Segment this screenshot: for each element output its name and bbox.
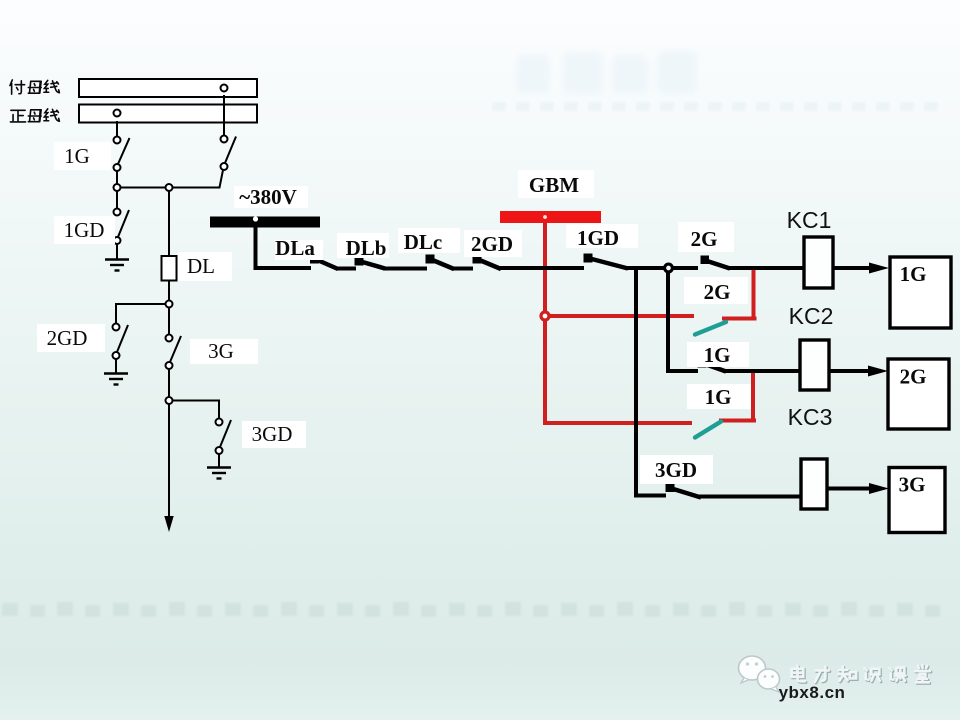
wire 3GD to ground — [218, 454, 220, 467]
svg-text:GBM: GBM — [529, 173, 579, 197]
label 2GD row — [464, 230, 522, 257]
ghost watermark top center — [516, 50, 697, 94]
wire bus2 to 1G — [116, 121, 118, 137]
wire — [626, 266, 664, 270]
node on main bus — [114, 110, 121, 117]
box 1G output — [890, 257, 951, 328]
label 2G row — [678, 222, 734, 252]
wire — [499, 266, 584, 270]
svg-text:DLc: DLc — [404, 230, 443, 254]
svg-text:1G: 1G — [900, 262, 927, 286]
svg-text:3GD: 3GD — [655, 458, 697, 482]
wechat icon — [739, 656, 780, 692]
ground 1GD — [105, 260, 129, 271]
wire 1GD to ground — [116, 244, 118, 259]
wire long drop to row C — [636, 268, 666, 496]
svg-text:2GD: 2GD — [47, 326, 88, 350]
svg-text:1G: 1G — [64, 144, 90, 168]
label DL — [178, 252, 232, 281]
svg-text:1GD: 1GD — [577, 226, 619, 250]
label GBM — [518, 170, 594, 198]
svg-text:2G: 2G — [691, 227, 718, 251]
svg-text:2G: 2G — [704, 280, 731, 304]
node red ring — [541, 312, 549, 320]
earthing switch 3GD — [216, 419, 223, 426]
svg-text:1G: 1G — [704, 343, 731, 367]
wire bus1 to 2G — [223, 95, 225, 136]
label 1G rowB — [687, 342, 749, 367]
ground 2GD — [104, 374, 128, 385]
svg-text:KC2: KC2 — [789, 303, 834, 329]
svg-text:1G: 1G — [705, 385, 732, 409]
knife switch 3GD (KC3 row) — [666, 483, 675, 492]
svg-text:ybx8.cn: ybx8.cn — [779, 683, 846, 702]
svg-text:KC1: KC1 — [787, 207, 832, 233]
label 3GD rowC — [640, 455, 713, 484]
disconnector 3G — [166, 335, 173, 342]
wire GBM down — [543, 223, 547, 311]
wire DL down — [168, 281, 170, 301]
wire — [336, 267, 356, 271]
arrow to 3G — [869, 483, 889, 494]
label 2G red — [684, 277, 748, 304]
text 正母线 — [10, 110, 25, 122]
earthing switch 2GD — [113, 324, 120, 331]
faint text row right half — [492, 102, 938, 111]
knife switch 1GD — [584, 254, 593, 263]
wire to KC2 — [724, 369, 800, 373]
node on GBM bus — [543, 215, 547, 219]
wire — [383, 267, 427, 271]
open contact blades (teal) — [695, 322, 726, 438]
wire red down to row2 — [545, 321, 692, 423]
earthing switch 1GD — [114, 209, 121, 216]
node on auxiliary bus — [221, 85, 228, 92]
svg-text:DLa: DLa — [275, 236, 315, 260]
knife switch 2GD — [473, 255, 482, 264]
arrow to 2G — [868, 366, 888, 377]
svg-text:KC3: KC3 — [788, 404, 833, 430]
relay coil KC1 — [804, 237, 833, 288]
svg-text:2G: 2G — [900, 365, 927, 389]
wire junction to DL — [168, 191, 170, 256]
wire — [452, 267, 473, 271]
label 1G red — [687, 384, 751, 409]
svg-text:3G: 3G — [899, 473, 926, 497]
wire 2GD to ground — [115, 359, 117, 373]
disconnector 2G — [221, 136, 228, 143]
label 1GD row — [566, 224, 638, 248]
wire KC3 to arrow — [827, 487, 871, 491]
wire to 3GD branch — [173, 401, 220, 419]
breaker DL — [162, 256, 177, 281]
disconnector 1G — [114, 137, 121, 144]
arrow feeder — [164, 516, 173, 532]
wire feeder down — [168, 404, 170, 518]
svg-text:~380V: ~380V — [239, 185, 297, 209]
wire red corner row1 — [722, 317, 757, 321]
bus bar 正母线 — [79, 105, 257, 123]
wire to KC3 — [699, 495, 801, 499]
wire node A down to row B — [668, 273, 698, 371]
node junction mid — [166, 184, 173, 191]
label 1GD — [54, 216, 115, 244]
knife switch DLb — [355, 257, 364, 266]
node feeder junction — [166, 397, 173, 404]
blade 2G aux open — [695, 322, 726, 335]
wire to KC1 — [728, 266, 804, 270]
knife switch DLa — [310, 255, 319, 264]
label DLa — [275, 240, 323, 260]
wire 2G down to junction bar — [173, 170, 224, 188]
node below DL — [166, 301, 173, 308]
box 2G output — [888, 359, 949, 429]
arrow to 1G — [869, 263, 889, 274]
wire 3G to junction — [168, 369, 170, 397]
label 1G — [54, 142, 111, 170]
svg-text:2GD: 2GD — [471, 232, 513, 256]
label 3G left — [190, 339, 258, 364]
wire junction to 1GD — [116, 191, 118, 209]
svg-text:1GD: 1GD — [64, 218, 105, 242]
label DLc — [398, 228, 460, 253]
label DLb — [337, 233, 389, 258]
relay coil KC2 — [800, 340, 829, 390]
knife switch 2G — [701, 256, 710, 265]
bus ~380V — [210, 217, 320, 228]
wire junction bar left — [121, 187, 166, 189]
node on 380V bus — [253, 216, 258, 221]
knife switch 1G (KC2 row) — [698, 359, 707, 368]
wire 380V bus down and right — [256, 227, 312, 268]
label 3GD left — [242, 421, 306, 448]
wire — [673, 266, 698, 270]
bus GBM — [500, 211, 601, 223]
label 2GD left — [37, 324, 105, 352]
relay coil KC3 — [801, 459, 827, 509]
wire to 2GD branch — [116, 304, 166, 324]
svg-text:3G: 3G — [208, 339, 234, 363]
ground 3GD — [207, 468, 231, 479]
svg-text:DLb: DLb — [346, 236, 387, 260]
bus bar 付母线 — [79, 79, 257, 97]
text 付母线 — [10, 80, 25, 94]
wire 1G to junction — [116, 171, 118, 184]
box 3G output — [889, 468, 945, 533]
blade 1G aux open — [695, 422, 721, 438]
knife switch DLc — [426, 255, 435, 264]
wire KC1 to arrow — [833, 266, 871, 270]
node junction left — [114, 184, 121, 191]
faint watermark row bottom — [2, 602, 940, 617]
text 电力知识课堂 (embossed) — [793, 666, 931, 683]
wire node to 3G — [168, 308, 170, 335]
wire red branch row1 — [550, 314, 694, 318]
svg-text:3GD: 3GD — [252, 422, 293, 446]
label ~380V — [234, 186, 308, 208]
wire KC2 to arrow — [829, 369, 870, 373]
wire red corner row2 — [719, 419, 756, 423]
node circle A — [665, 264, 673, 272]
svg-text:DL: DL — [187, 254, 215, 278]
